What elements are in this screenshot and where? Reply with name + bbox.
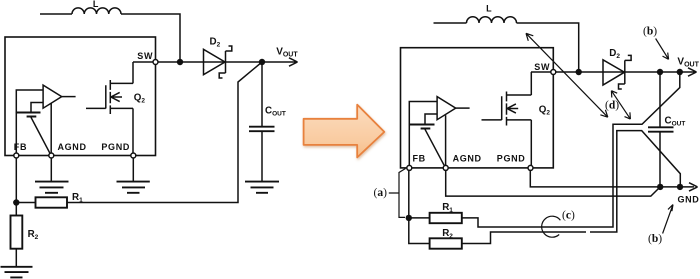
wire PGND pin to ground (left) [132, 156, 134, 182]
wire PGND to GND rail (right) [530, 168, 694, 187]
svg-text:AGND: AGND [453, 153, 482, 163]
wire R1 loop: VOUT dot2 down-diagonal-left-down to R1 (right) [462, 72, 680, 227]
wire Q2 drain to SW (right) [530, 72, 532, 95]
svg-text:D2: D2 [210, 37, 221, 49]
svg-text:PGND: PGND [101, 142, 130, 152]
ground PGND (left) [117, 182, 150, 193]
pin AGND (right) [443, 165, 448, 170]
wire node down to R2 (right) [409, 218, 430, 244]
resistor R1 (left) [36, 197, 68, 207]
wire feedback VOUT to R1 (left) [67, 62, 262, 203]
pin PGND (left) [131, 153, 136, 158]
wire COUT to GND line (right) [659, 132, 661, 187]
wire op-amp output stub (right) [456, 107, 470, 109]
ground COUT (left) [245, 182, 279, 193]
wire left inductor input [40, 13, 72, 15]
svg-text:R2: R2 [28, 229, 39, 241]
wire Q2 drain to SW (left) [132, 62, 134, 83]
svg-text:(c): (c) [562, 210, 575, 222]
transistor Q2 (right) [482, 92, 532, 126]
annotation (b) bottom arrow [663, 205, 673, 234]
inductor L (left) [72, 8, 121, 14]
wire right inductor input [434, 22, 467, 24]
svg-text:(a): (a) [374, 187, 388, 199]
svg-text:R2: R2 [442, 228, 453, 240]
svg-text:R1: R1 [72, 192, 83, 204]
svg-text:FB: FB [413, 153, 426, 163]
wire Q2 source to PGND (left) [132, 108, 134, 155]
wire R1 to FB node (right) [409, 217, 430, 219]
wire op-amp gnd to AGND pin (right) [445, 115, 447, 168]
wire R2 to ground (left) [15, 249, 17, 267]
wire VOUT arrow (left) [287, 58, 298, 66]
wire op-amp gnd to AGND pin (left) [50, 103, 52, 155]
wire SW rail (left) [133, 61, 287, 63]
svg-text:(b): (b) [648, 233, 662, 245]
IC box (left) [5, 37, 156, 156]
pin PGND (right) [528, 165, 533, 170]
svg-text:L: L [93, 0, 99, 9]
wire Q2 source to PGND (right) [530, 120, 532, 168]
svg-text:(b): (b) [643, 26, 657, 38]
node VOUT junction 2 (right) [677, 69, 683, 75]
svg-text:SW: SW [137, 51, 153, 61]
node inductor/SW junction (right) [576, 69, 582, 75]
svg-text:PGND: PGND [497, 153, 526, 163]
wire COUT to ground (left) [261, 131, 263, 181]
svg-text:(d): (d) [605, 99, 619, 111]
resistor R2 (left) [11, 216, 23, 249]
wire FB pin riser to op-amp + input (right) [409, 102, 437, 168]
wire R1 to FB node (left) [16, 202, 35, 204]
annotation long current-loop arrow (right) [526, 33, 608, 117]
node GND junction 2 (right) [677, 184, 683, 190]
node FB/R1/R2 junction (left) [13, 199, 19, 205]
svg-text:FB: FB [14, 142, 27, 152]
svg-text:COUT: COUT [265, 106, 286, 118]
annotation (c) loop circle [542, 216, 561, 237]
svg-text:COUT: COUT [665, 116, 686, 128]
annotation (b) top arrow [656, 39, 669, 60]
wire node to R2 (left) [15, 203, 17, 216]
wire FB pin riser to op-amp + input (left) [16, 90, 43, 156]
pin FB (right) [407, 165, 412, 170]
wire op-amp output stub (left) [62, 96, 76, 98]
svg-text:AGND: AGND [58, 142, 87, 152]
svg-text:R1: R1 [442, 202, 453, 214]
wire GND arrow (right) [689, 183, 698, 191]
node VOUT junction (left) [259, 59, 265, 65]
wire FB pin down to node (right) [408, 168, 410, 218]
diode D2 (left, schottky) [204, 46, 232, 78]
battery reference (left) [16, 113, 41, 117]
inductor L (right) [467, 17, 517, 23]
transistor Q2 body arrow (right) [507, 104, 518, 113]
resistor R1 (right) [430, 213, 462, 223]
diode D2 (right, schottky) [603, 55, 631, 89]
pin SW (right) [551, 70, 556, 75]
wire SW rail (right) [531, 71, 685, 73]
wire op-amp - input (left) [31, 103, 43, 113]
wire R2 loop to GND (right) [462, 131, 681, 244]
resistor R2 (right) [430, 238, 462, 248]
op-amp U1 (left) [43, 85, 62, 108]
svg-text:SW: SW [534, 62, 550, 72]
svg-text:L: L [486, 4, 492, 14]
wire FB pin down to node (left) [15, 156, 17, 203]
pin SW (left) [153, 60, 158, 65]
wire inductor to SW rail (left) [121, 14, 180, 62]
pin AGND (left) [49, 153, 54, 158]
svg-text:VOUT: VOUT [276, 47, 298, 59]
svg-text:VOUT: VOUT [677, 56, 699, 68]
svg-text:Q2: Q2 [539, 104, 551, 116]
battery reference (right) [410, 125, 435, 129]
ground AGND (left) [35, 182, 69, 193]
svg-text:Q2: Q2 [134, 93, 146, 105]
transistor Q2 body arrow (left) [111, 92, 122, 101]
op-amp U1 (right) [437, 97, 456, 120]
wire inductor to SW rail (right) [517, 23, 579, 72]
transistor Q2 (left) [86, 80, 133, 114]
wire battery to AGND pin (left) [31, 117, 51, 155]
annotation (a) bracket [389, 169, 406, 218]
node GND junction 1 (right) [657, 184, 663, 190]
wire AGND pin to ground (left) [50, 156, 52, 182]
node VOUT junction 1 (right) [657, 69, 663, 75]
svg-text:GND: GND [678, 194, 700, 204]
wire VOUT arrow (right) [685, 68, 697, 76]
wire op-amp - input (right) [425, 114, 437, 124]
annotation (d) double arrow [611, 91, 630, 119]
wire battery to AGND pin (right) [425, 129, 445, 167]
wire AGND return to GND (right) [446, 168, 661, 196]
wire VOUT down to COUT (left) [261, 62, 263, 126]
pin FB (left) [14, 153, 19, 158]
node FB/R1/R2 junction (right) [406, 215, 412, 221]
ground R2 (left) [1, 267, 33, 278]
capacitor COUT (right) [648, 127, 674, 131]
wire VOUT down to COUT (right) [659, 72, 661, 127]
capacitor COUT (left) [249, 127, 275, 132]
node inductor/SW junction (left) [177, 59, 183, 65]
IC box (right) [401, 48, 554, 168]
svg-text:D2: D2 [609, 48, 620, 60]
